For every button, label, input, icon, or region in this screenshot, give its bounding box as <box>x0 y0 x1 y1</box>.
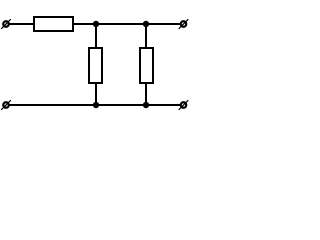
node D (junction dot bottom of R3) <box>143 102 149 108</box>
resistor R3 (shunt right) <box>140 48 153 83</box>
terminal J3 (input bottom) <box>1 100 11 110</box>
wire R1 to J2 (top rail) <box>73 23 181 25</box>
wire J1 to R1 <box>9 23 35 25</box>
node C (junction dot bottom of R2) <box>93 102 99 108</box>
resistor R1 (series) <box>34 17 73 31</box>
wire bottom lead of R2 <box>95 82 97 105</box>
node A (junction dot top of R2) <box>93 21 99 27</box>
resistor R2 (shunt left) <box>89 48 102 83</box>
terminal J1 (input top) <box>1 19 11 29</box>
node B (junction dot top of R3) <box>143 21 149 27</box>
wire bottom lead of R3 <box>145 82 147 105</box>
wire bottom rail <box>9 104 181 106</box>
terminal J2 (output top) <box>179 19 189 29</box>
wire top lead of R2 <box>95 24 97 49</box>
terminal J4 (output bottom) <box>179 100 189 110</box>
wire top lead of R3 <box>145 24 147 49</box>
